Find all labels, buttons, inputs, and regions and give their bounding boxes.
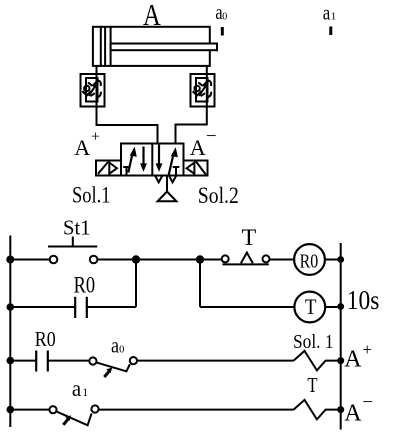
- vertical connector x=200: [199, 260, 201, 308]
- svg-text:−: −: [206, 126, 217, 147]
- rung3 wire right: [137, 360, 294, 362]
- pushbutton St1: [48, 237, 97, 264]
- junction dot rung3: [7, 357, 15, 365]
- solenoid box right (Sol.2): [184, 161, 208, 176]
- valve right square: down arrow: [158, 144, 160, 165]
- junction dot rung1: [6, 256, 14, 264]
- svg-text:A: A: [190, 135, 206, 160]
- timer contact T: [222, 253, 270, 265]
- rung1 wire middle: [97, 259, 221, 261]
- valve left square: up arrow: [128, 153, 132, 173]
- svg-text:T: T: [307, 373, 317, 397]
- svg-text:R0: R0: [300, 251, 319, 273]
- svg-text:Sol.2: Sol.2: [198, 183, 239, 208]
- solenoid coil Sol.1 zigzag: [294, 351, 341, 371]
- timer coil T: [294, 292, 325, 323]
- timer contact coil T zigzag: [294, 400, 341, 420]
- svg-text:a: a: [111, 332, 119, 357]
- piston flange: [110, 27, 112, 66]
- svg-text:T: T: [305, 294, 317, 319]
- svg-text:R0: R0: [35, 327, 56, 351]
- valve right square: up arrow: [169, 154, 174, 175]
- svg-text:A: A: [344, 346, 362, 372]
- svg-text:A: A: [344, 401, 362, 427]
- piston: [100, 27, 102, 66]
- junction dot: [337, 303, 344, 310]
- rung1 wire right: [270, 259, 295, 261]
- svg-text:R0: R0: [74, 272, 96, 297]
- relay coil R0: [294, 244, 325, 275]
- rung3 wire left: [10, 360, 36, 362]
- contact R0 (rung3): [36, 351, 48, 372]
- svg-text:Sol.1: Sol.1: [72, 182, 111, 207]
- rung2 wire left: [10, 306, 75, 308]
- svg-text:−: −: [362, 392, 373, 413]
- piston rod: [111, 44, 217, 51]
- valve left square: blocked port T: [123, 167, 130, 175]
- limit switch contact a1: [49, 405, 98, 425]
- solenoid box left (Sol.1): [96, 161, 121, 176]
- svg-text:+: +: [362, 340, 372, 359]
- junction dot: [337, 357, 344, 364]
- wire T coil to rail: [325, 306, 341, 308]
- exhaust check V left: [155, 176, 162, 183]
- svg-text:St1: St1: [63, 216, 91, 240]
- wire coil to rail: [325, 259, 341, 261]
- rung1 wire left: [10, 259, 50, 261]
- junction dot: [196, 255, 204, 263]
- exhaust check V right: [169, 176, 176, 183]
- svg-text:0: 0: [119, 345, 124, 356]
- wire right valve to 5/2 valve: [176, 107, 207, 144]
- wire left cylinder port: [96, 66, 98, 74]
- svg-text:10s: 10s: [347, 285, 380, 315]
- flow control valve right: [191, 74, 215, 107]
- svg-text:T: T: [242, 225, 257, 250]
- junction dot rung4: [7, 406, 15, 414]
- right rail: [340, 243, 342, 430]
- rung4 wire right: [99, 409, 294, 411]
- svg-text:0: 0: [222, 11, 227, 22]
- timer branch wire: [200, 306, 294, 308]
- rung4 wire left: [10, 409, 49, 411]
- junction dot: [132, 255, 140, 263]
- valve left square: down arrow: [142, 147, 144, 165]
- junction dot rung2: [7, 303, 15, 311]
- exhaust triangle: [158, 192, 177, 202]
- rung2 wire right of contact: [87, 306, 136, 308]
- limit switch contact a0: [89, 357, 137, 377]
- contact R0 (rung2): [75, 297, 87, 318]
- svg-text:A: A: [74, 135, 90, 160]
- junction dot: [337, 406, 344, 413]
- wire right cylinder port: [206, 66, 208, 74]
- svg-text:Sol. 1: Sol. 1: [293, 331, 334, 353]
- flow control valve left: [81, 74, 105, 107]
- svg-text:1: 1: [82, 387, 88, 399]
- sensor a0 tick: [221, 27, 224, 36]
- wire left valve to 5/2 valve: [97, 107, 158, 144]
- svg-text:1: 1: [331, 11, 337, 23]
- svg-text:+: +: [91, 129, 100, 146]
- sensor a1 tick: [329, 27, 332, 36]
- 5/2 directional valve body: [121, 144, 184, 176]
- supply line: [166, 176, 168, 192]
- valve right square: blocked port T: [173, 167, 180, 175]
- cylinder A body: [93, 27, 210, 66]
- junction dot: [337, 256, 344, 263]
- svg-text:a: a: [72, 376, 81, 401]
- left rail: [9, 236, 11, 428]
- rung3 wire: [48, 360, 90, 362]
- vertical connector x=136: [135, 260, 137, 308]
- svg-text:a: a: [323, 1, 331, 25]
